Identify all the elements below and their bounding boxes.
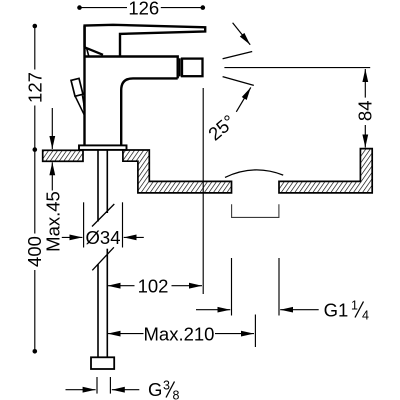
25deg upper leader arrow [233,23,251,45]
svg-text:G1: G1 [324,299,349,320]
pipe break lower diagonal [92,247,114,270]
faucet handle lever blade and block [85,25,206,57]
dim 400 line [34,150,36,234]
dim G1 1/4 extension lines [231,258,233,316]
dim O34 left arrow [62,236,83,238]
spout/aerator seam [179,58,181,76]
dim O34 right arrow [124,236,144,238]
drain spud U [232,204,279,217]
svg-text:Max.210: Max.210 [144,323,215,344]
dim Max.210 right arrow [215,333,254,335]
bowl arc [225,170,283,178]
G 3/8 fraction slash [166,382,175,398]
dim G1 1/4 left-side arrow [196,309,230,311]
dim 127 end dots [33,24,38,29]
spray center line [224,67,370,69]
counter left hatched block [43,150,83,161]
svg-text:84: 84 [354,101,375,122]
aerator M1 [182,59,203,77]
ceramic right hatched strip and wall [279,149,372,193]
dim G 3/8 right arrow [112,389,140,391]
dim O34 extension lines [83,202,85,247]
dim Max.210 left arrow [108,333,144,335]
dim 126 end dots [77,5,82,10]
svg-text:Max.45: Max.45 [42,191,63,252]
dim G1 1/4 right-side arrow [280,309,319,311]
svg-text:1: 1 [351,299,358,313]
spray upper edge line [223,52,253,59]
svg-text:G: G [148,379,162,400]
supply pipe upper right line [106,150,108,213]
dim Max.45 lower arrow [51,162,53,190]
dim 84 lower arrow [364,125,366,148]
25deg lower leader arrow [236,87,251,111]
dim 126 line [80,7,128,9]
base flange [79,145,127,150]
svg-text:4: 4 [362,309,369,323]
lever taper dark tip [83,104,85,117]
handle block small front edge [87,48,89,56]
dim 102 left arrow [108,285,135,287]
svg-text:Ø34: Ø34 [86,227,121,248]
pipe break upper diagonal [92,204,114,227]
lever taper line left [75,97,84,116]
spray lower edge line [223,77,254,86]
dim 400 end dot [33,349,38,354]
lever taper line right [82,95,85,110]
dim G 3/8 extension lines [96,377,98,394]
G3/8 end connector [91,357,114,369]
dim Max.210 extension line [254,315,256,348]
dim 84 upper arrow [364,69,366,98]
dim 102 extension line [202,88,204,294]
G1 1/4 fraction slash [355,302,364,318]
svg-text:127: 127 [24,72,45,103]
handle block bottom diagonal [85,47,103,55]
svg-text:126: 126 [128,0,159,18]
svg-text:102: 102 [138,275,169,296]
lever knob [71,78,83,96]
faucet body outline [85,26,178,146]
dim G 3/8 left arrow [66,389,96,391]
dim 127 line [34,26,36,70]
dim 102 right arrow [172,285,203,287]
ceramic middle stepped hatched piece [123,150,232,193]
svg-text:8: 8 [173,389,180,400]
supply pipe upper left line [97,150,99,222]
svg-text:3: 3 [163,379,170,393]
supply pipe lower right line [106,249,108,358]
supply pipe lower left line [97,264,99,357]
dim Max.45 upper arrow [51,108,53,149]
